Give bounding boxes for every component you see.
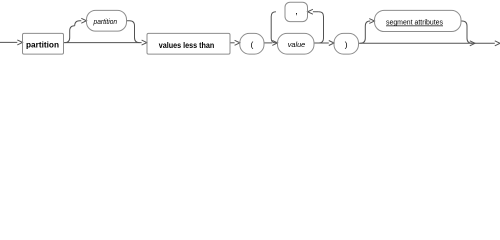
arrow into values-less-than box [142,40,147,45]
arrow into open-paren [235,40,240,45]
svg-text:partition: partition [26,41,59,50]
svg-text:,: , [295,6,298,17]
wire main entry [0,41,17,43]
branch1 rejoin: line, arc down, riser, arc onto main [127,21,140,43]
branch1 takeoff riser after partition box [65,26,75,43]
capsule open-paren [240,33,264,54]
wire close-paren to exit [359,42,495,44]
wire open-paren to value [264,42,272,44]
arrow into segment-attributes capsule [369,19,374,24]
svg-text:values less than: values less than [159,41,215,50]
svg-text:value: value [288,42,306,49]
svg-text:): ) [345,40,348,50]
capsule value [278,33,315,54]
comma loop top line [313,11,319,13]
comma loop right side [319,12,324,43]
arrow exit [495,41,500,46]
box values less than keyword [147,33,230,54]
arrow into close-paren [329,41,334,46]
comma loop left side [271,12,276,43]
box partition keyword [23,33,64,54]
svg-text:segment attributes: segment attributes [386,20,443,27]
arrow after segment-attributes rejoin [470,41,475,46]
segment-attributes takeoff riser [360,21,370,43]
capsule close-paren [334,33,359,54]
wire box1 to box2 [64,42,142,44]
wire box2 to open-paren [230,42,235,44]
arrow into partition-name capsule [81,18,86,23]
capsule segment-attributes link [375,10,462,31]
arrow into partition box [17,40,22,45]
svg-text:(: ( [250,40,253,50]
wire value to close-paren [314,42,329,44]
arrow into comma capsule (pointing left) [308,9,313,14]
svg-text:partition: partition [93,19,118,26]
arrow into value capsule [272,40,277,45]
branch1 top-left arc to branch line [75,21,82,26]
segment-attributes rejoin riser [461,21,472,43]
capsule partition-name (optional) [87,10,127,31]
capsule comma [285,2,308,21]
